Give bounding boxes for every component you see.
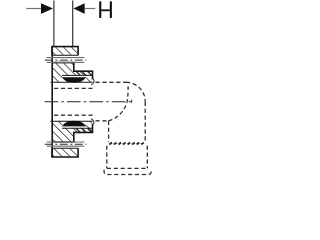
label H <box>99 1 112 18</box>
hatched top socket wall rect <box>52 47 78 55</box>
elbow left wall <box>108 121 110 142</box>
elbow inner bend arc <box>109 86 129 121</box>
dimension leader left <box>26 8 41 10</box>
mouth chamfer curl upper <box>91 79 94 85</box>
center tick <box>131 100 133 103</box>
bottom rim <box>104 170 151 175</box>
bottom socket right wall <box>146 146 148 169</box>
dimension leader right <box>84 8 95 10</box>
dimension arrow left <box>41 3 53 14</box>
bottom socket left wall <box>106 146 108 169</box>
elbow bottom wall hidden <box>96 120 109 122</box>
bottom socket inner edge <box>107 167 148 169</box>
upper L outline <box>52 63 93 80</box>
lip seal lower (black) <box>62 121 86 127</box>
extension line 2 <box>72 1 74 46</box>
elbow right wall <box>144 102 146 142</box>
left face vertical <box>51 47 53 157</box>
flange band upper <box>47 57 85 59</box>
bore line lower <box>51 120 93 122</box>
hidden spigot bore upper <box>54 87 93 89</box>
seal groove cutout lower <box>62 121 85 128</box>
flange band lower <box>47 145 85 147</box>
elbow top wall hidden <box>96 81 127 83</box>
hidden spigot bore lower <box>54 114 93 116</box>
flange dash-dot upper <box>45 59 87 61</box>
technical drawing: flanged socket section with hidden 90-degree elbow, dimension H <box>0 0 180 180</box>
centerline <box>45 101 134 103</box>
lower L outline <box>52 124 93 142</box>
hatched body upper L-section <box>52 63 93 82</box>
groove top edge lower <box>62 127 93 129</box>
flange dash-dot lower <box>45 143 87 145</box>
extension line 1 <box>53 1 55 46</box>
elbow outer bend arc <box>126 82 145 102</box>
hatched bottom socket wall rect <box>52 149 78 157</box>
extra hatch shelf bottom <box>76 128 91 132</box>
groove top edge upper <box>62 74 93 76</box>
lip seal upper (black) <box>62 77 86 83</box>
mouth chamfer curl lower <box>91 119 94 125</box>
hatched body lower L-section <box>52 121 93 142</box>
seal groove cutout upper <box>62 76 85 83</box>
bore line upper <box>51 81 93 83</box>
extra hatch shelf top <box>76 71 91 75</box>
dimension arrow right <box>73 3 84 14</box>
socket shoulder slant dashes <box>109 143 144 145</box>
